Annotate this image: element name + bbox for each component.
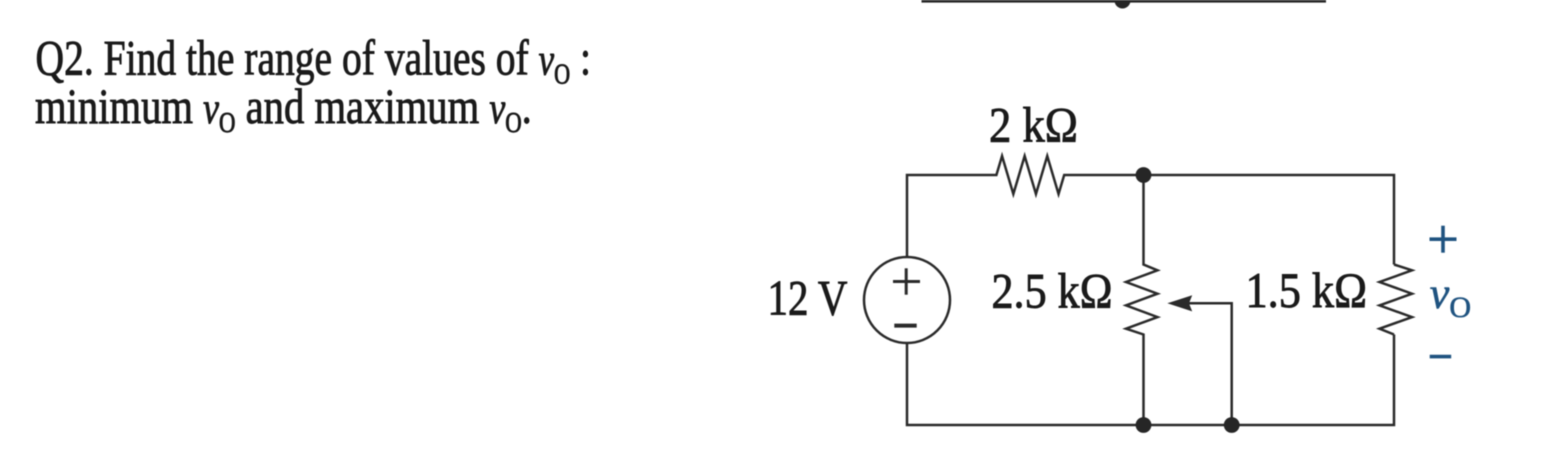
svg-text:2 kΩ: 2 kΩ <box>989 97 1078 153</box>
svg-text:2.5 kΩ: 2.5 kΩ <box>992 262 1113 318</box>
svg-text:v: v <box>1430 269 1450 318</box>
svg-text:12 V: 12 V <box>768 270 848 326</box>
svg-text:minimum vO and maximum vO.: minimum vO and maximum vO. <box>35 78 532 139</box>
svg-text:O: O <box>1449 291 1471 324</box>
svg-text:1.5 kΩ: 1.5 kΩ <box>1246 262 1368 318</box>
